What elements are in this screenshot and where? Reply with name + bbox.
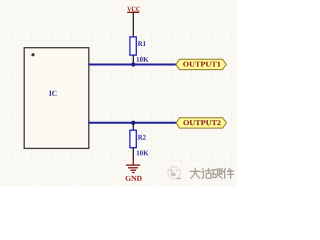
watermark logo figure: [171, 169, 182, 179]
junction node at R1/wire1: [131, 62, 135, 66]
char 件: [223, 168, 233, 178]
label IC: [49, 91, 56, 96]
port OUTPUT2: [176, 118, 226, 128]
power port VCC: [127, 7, 140, 13]
wire VCC stem: [132, 13, 134, 37]
wire R2 upper stem: [132, 123, 134, 130]
ground GND: [126, 157, 142, 181]
component IC body: [24, 48, 89, 149]
junction node at R2/wire2: [131, 121, 135, 125]
resistor R1: [130, 37, 149, 64]
wire net OUTPUT2: [89, 122, 177, 124]
char 硬: [212, 169, 222, 178]
port OUTPUT1: [176, 59, 226, 69]
char 大: [190, 168, 200, 178]
watermark text 大话硬件: [190, 168, 233, 178]
char 话: [201, 168, 211, 178]
wire net OUTPUT1: [89, 64, 177, 66]
pin-1 dot: [31, 53, 34, 56]
watermark logo circle: [168, 167, 180, 179]
resistor R2: [130, 130, 149, 158]
